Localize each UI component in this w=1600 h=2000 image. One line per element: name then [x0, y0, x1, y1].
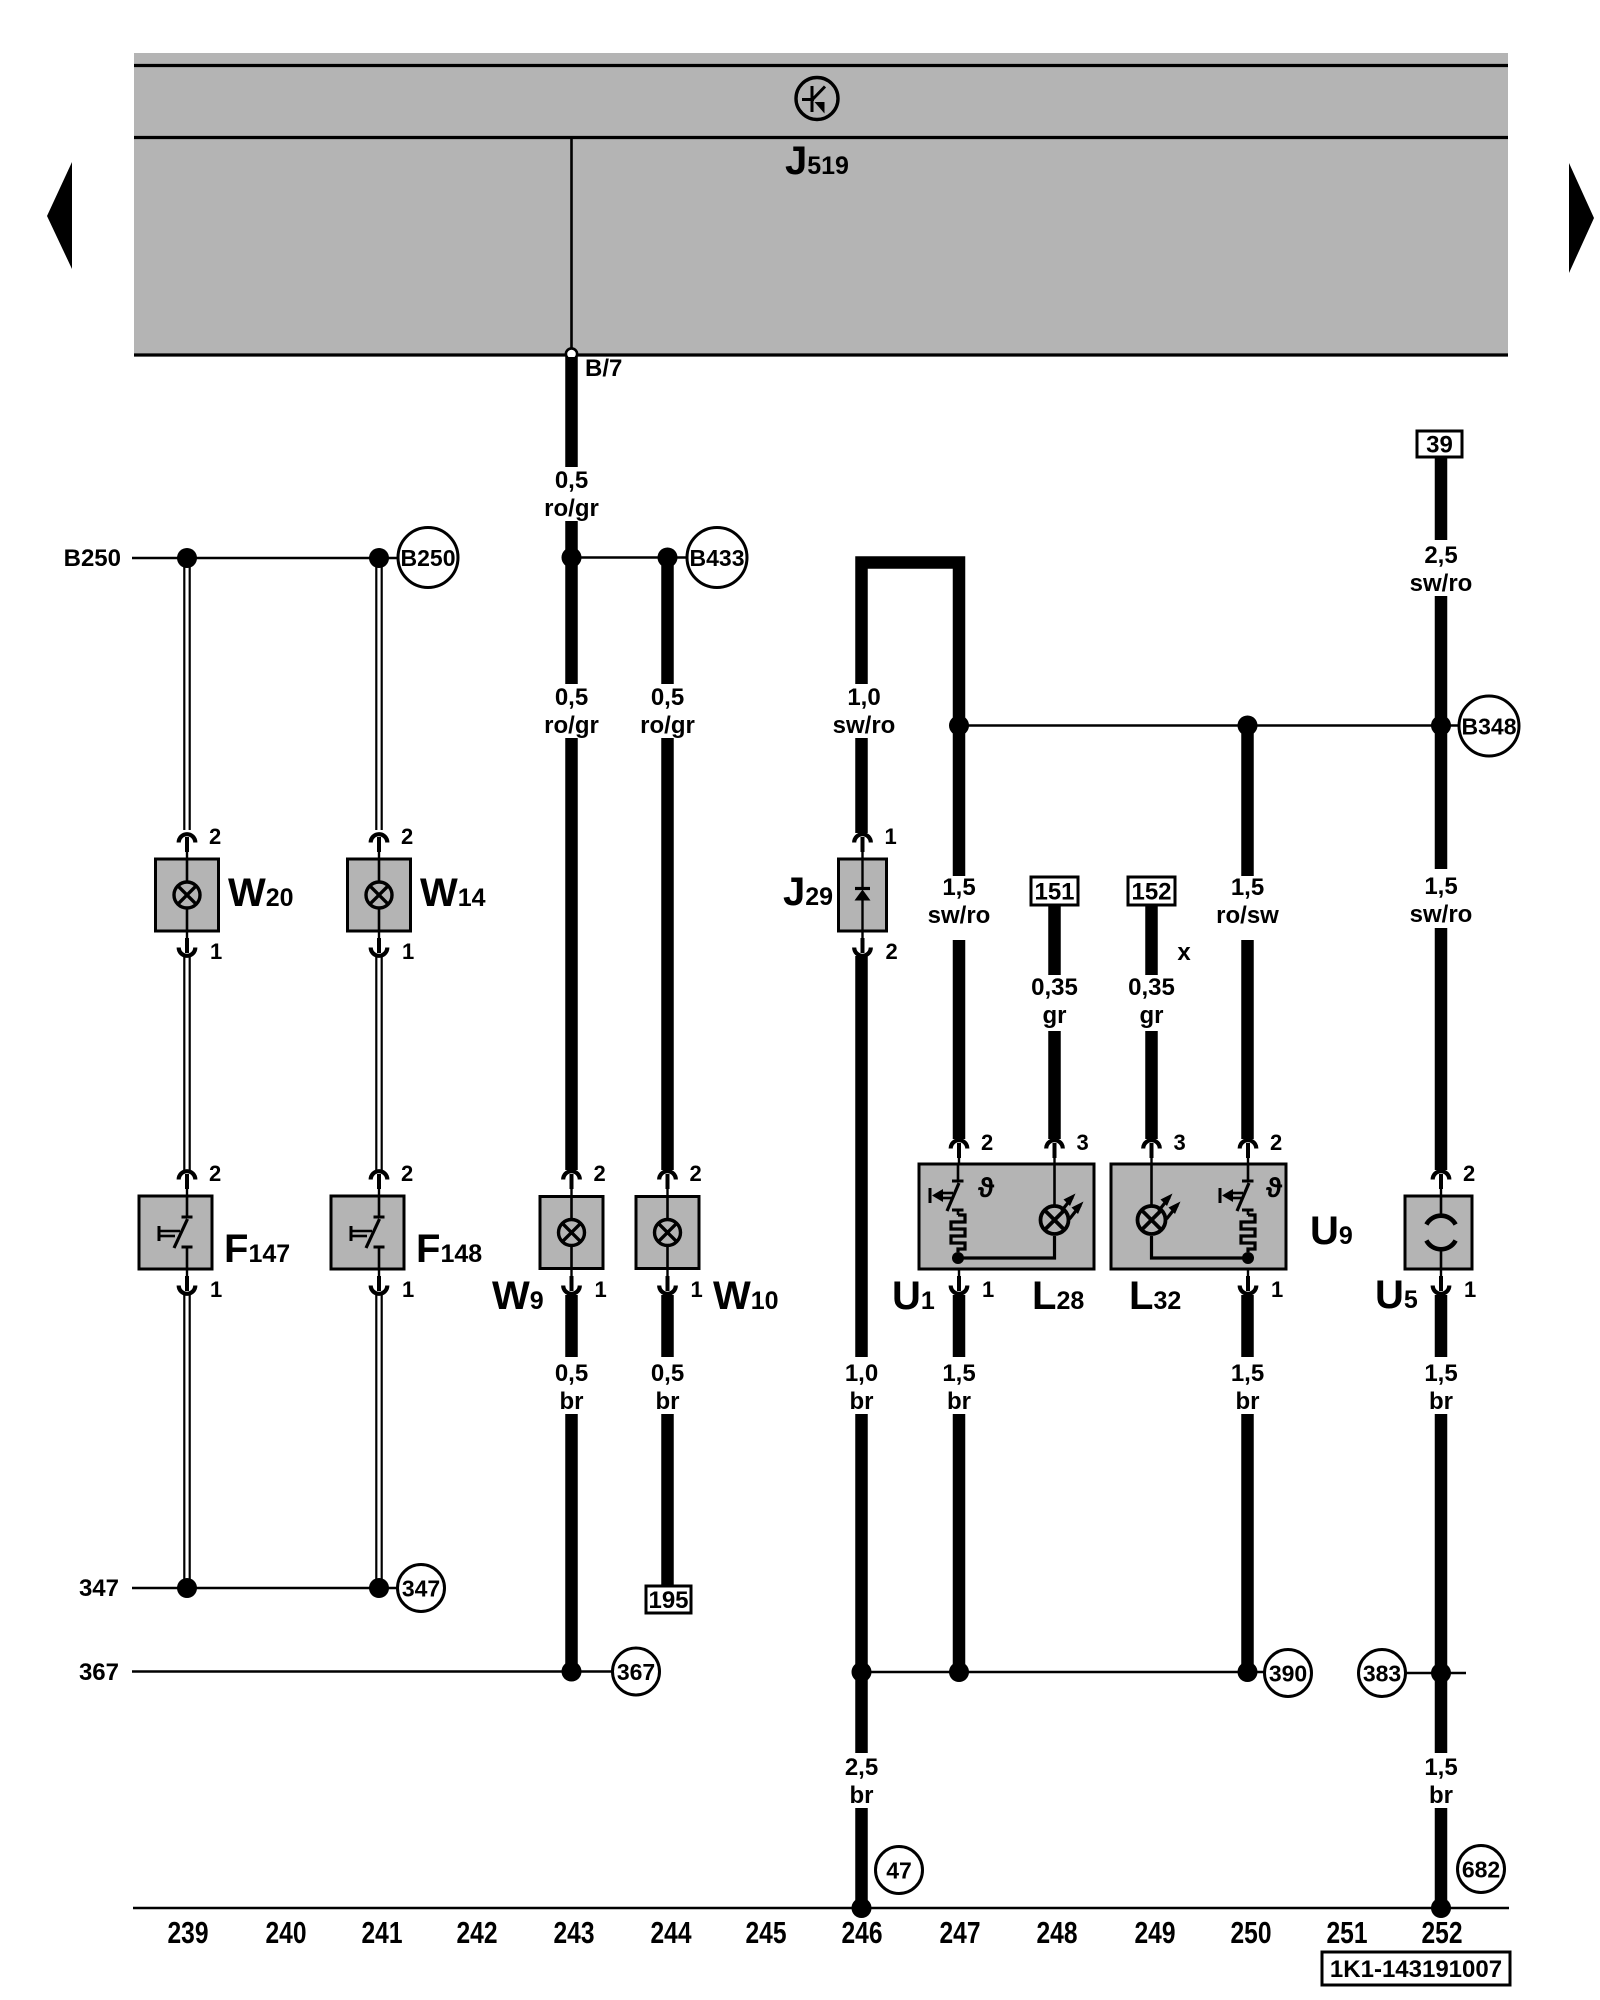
svg-text:367: 367	[79, 1659, 119, 1686]
svg-text:367: 367	[617, 1659, 655, 1685]
svg-text:2,5: 2,5	[1424, 542, 1457, 569]
svg-text:152: 152	[1131, 879, 1171, 906]
svg-text:br: br	[1429, 1782, 1453, 1809]
svg-text:1,5: 1,5	[1424, 873, 1457, 900]
svg-text:239: 239	[168, 1915, 209, 1950]
svg-text:151: 151	[1034, 879, 1074, 906]
svg-text:347: 347	[79, 1575, 119, 1602]
svg-text:1,0: 1,0	[847, 684, 880, 711]
svg-text:390: 390	[1269, 1661, 1307, 1687]
svg-text:195: 195	[648, 1587, 688, 1614]
svg-text:1: 1	[1464, 1277, 1476, 1302]
svg-text:248: 248	[1037, 1915, 1078, 1950]
svg-text:250: 250	[1231, 1915, 1272, 1950]
svg-text:br: br	[656, 1388, 680, 1415]
svg-text:347: 347	[402, 1576, 440, 1602]
svg-text:1: 1	[691, 1277, 703, 1302]
svg-text:2: 2	[1463, 1161, 1475, 1186]
svg-text:241: 241	[362, 1915, 403, 1950]
svg-text:gr: gr	[1140, 1002, 1164, 1029]
svg-text:0,5: 0,5	[555, 684, 588, 711]
svg-text:252: 252	[1422, 1915, 1463, 1950]
svg-text:2: 2	[401, 824, 413, 849]
svg-text:0,5: 0,5	[555, 1360, 588, 1387]
svg-text:0,5: 0,5	[555, 467, 588, 494]
svg-text:2,5: 2,5	[845, 1754, 878, 1781]
svg-text:1: 1	[402, 1277, 414, 1302]
svg-text:1,5: 1,5	[1231, 1360, 1264, 1387]
svg-text:B250: B250	[64, 545, 121, 572]
svg-text:0,35: 0,35	[1128, 974, 1175, 1001]
svg-text:1K1-143191007: 1K1-143191007	[1330, 1956, 1502, 1983]
svg-text:251: 251	[1327, 1915, 1368, 1950]
svg-text:1: 1	[1271, 1277, 1283, 1302]
svg-text:br: br	[1429, 1388, 1453, 1415]
svg-text:1,5: 1,5	[1231, 874, 1264, 901]
svg-text:1: 1	[982, 1277, 994, 1302]
svg-text:2: 2	[981, 1130, 993, 1155]
svg-text:3: 3	[1174, 1130, 1186, 1155]
svg-text:1,5: 1,5	[942, 874, 975, 901]
svg-text:2: 2	[690, 1161, 702, 1186]
svg-text:x: x	[1177, 939, 1191, 966]
svg-text:2: 2	[594, 1161, 606, 1186]
svg-text:gr: gr	[1043, 1002, 1067, 1029]
svg-text:2: 2	[1270, 1130, 1282, 1155]
svg-text:ϑ: ϑ	[1266, 1172, 1283, 1203]
svg-text:B250: B250	[401, 545, 456, 571]
svg-text:240: 240	[266, 1915, 307, 1950]
svg-text:47: 47	[886, 1858, 912, 1884]
svg-text:1,5: 1,5	[1424, 1360, 1457, 1387]
svg-text:br: br	[1236, 1388, 1260, 1415]
svg-text:sw/ro: sw/ro	[928, 902, 991, 929]
svg-text:0,35: 0,35	[1031, 974, 1078, 1001]
svg-text:1: 1	[210, 939, 222, 964]
svg-text:ro/gr: ro/gr	[544, 495, 599, 522]
svg-text:1: 1	[595, 1277, 607, 1302]
svg-text:B433: B433	[690, 545, 745, 571]
svg-text:1: 1	[885, 824, 897, 849]
svg-text:1: 1	[402, 939, 414, 964]
svg-text:ϑ: ϑ	[978, 1172, 995, 1203]
svg-text:br: br	[850, 1388, 874, 1415]
svg-text:2: 2	[886, 939, 898, 964]
svg-text:383: 383	[1363, 1661, 1401, 1687]
svg-text:br: br	[850, 1782, 874, 1809]
svg-text:1,5: 1,5	[1424, 1754, 1457, 1781]
svg-text:0,5: 0,5	[651, 684, 684, 711]
svg-text:ro/gr: ro/gr	[640, 712, 695, 739]
svg-text:2: 2	[209, 824, 221, 849]
svg-text:39: 39	[1426, 432, 1453, 459]
svg-text:sw/ro: sw/ro	[1410, 901, 1473, 928]
svg-text:br: br	[947, 1388, 971, 1415]
svg-text:247: 247	[940, 1915, 981, 1950]
svg-text:2: 2	[401, 1161, 413, 1186]
svg-text:682: 682	[1462, 1857, 1500, 1883]
svg-text:B/7: B/7	[585, 355, 622, 382]
svg-text:1: 1	[210, 1277, 222, 1302]
svg-text:3: 3	[1077, 1130, 1089, 1155]
svg-text:sw/ro: sw/ro	[1410, 570, 1473, 597]
svg-text:243: 243	[554, 1915, 595, 1950]
svg-text:249: 249	[1135, 1915, 1176, 1950]
svg-text:245: 245	[746, 1915, 787, 1950]
svg-text:1,0: 1,0	[845, 1360, 878, 1387]
svg-text:br: br	[560, 1388, 584, 1415]
svg-text:ro/gr: ro/gr	[544, 712, 599, 739]
svg-text:sw/ro: sw/ro	[833, 712, 896, 739]
svg-text:246: 246	[842, 1915, 883, 1950]
svg-text:242: 242	[457, 1915, 498, 1950]
svg-text:0,5: 0,5	[651, 1360, 684, 1387]
svg-text:ro/sw: ro/sw	[1216, 902, 1279, 929]
svg-text:B348: B348	[1462, 714, 1517, 740]
svg-text:1,5: 1,5	[942, 1360, 975, 1387]
svg-text:244: 244	[651, 1915, 693, 1950]
svg-text:2: 2	[209, 1161, 221, 1186]
